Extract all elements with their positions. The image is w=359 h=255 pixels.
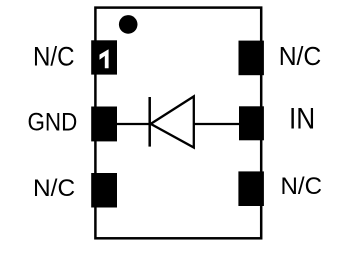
svg-text:GND: GND <box>28 109 78 137</box>
package outline <box>95 8 261 239</box>
pad pin 5 IN <box>239 106 264 140</box>
svg-text:N/C: N/C <box>281 173 323 200</box>
pad pin 2 GND <box>91 107 117 142</box>
diode triangle (anode) <box>151 96 194 147</box>
pad pin 6 (N/C) <box>239 41 264 76</box>
svg-text:N/C: N/C <box>279 41 322 71</box>
wire GND pad to diode cathode <box>117 123 151 125</box>
pad pin 3 (N/C) <box>91 173 117 208</box>
diode cathode bar <box>148 97 151 147</box>
pin 1 number label "1" <box>100 49 109 68</box>
pad pin 1 (N/C) <box>91 40 117 74</box>
wire diode anode to IN pad <box>194 123 239 125</box>
svg-text:IN: IN <box>289 103 315 136</box>
svg-text:N/C: N/C <box>33 175 75 202</box>
svg-text:N/C: N/C <box>33 42 75 72</box>
pad pin 4 (N/C) <box>238 171 264 206</box>
pin-1 indicator dot <box>119 15 138 34</box>
